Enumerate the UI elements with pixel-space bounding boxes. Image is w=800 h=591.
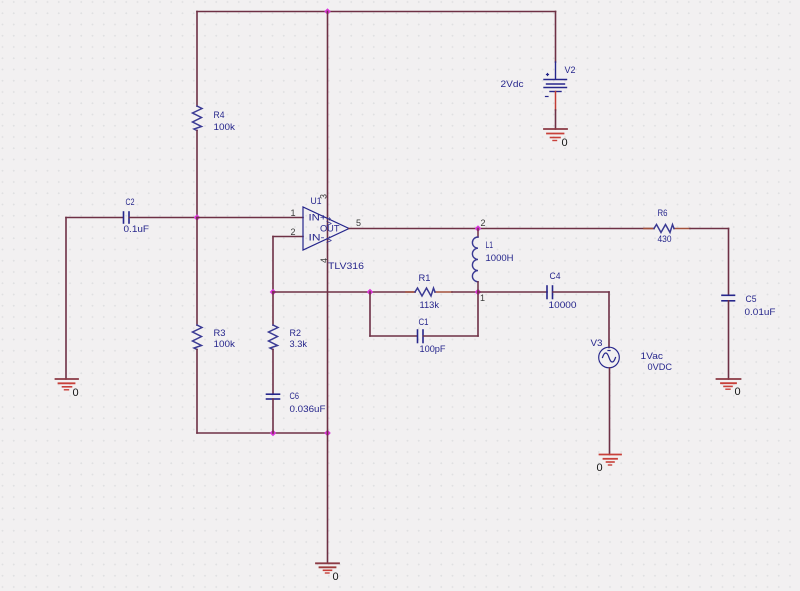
inductor L1 bottom lead [477, 282, 479, 292]
wire C2 left lead [66, 217, 123, 219]
svg-text:R4: R4 [214, 110, 225, 121]
junction C1 loop left [367, 289, 374, 296]
wire V3 to ground [609, 368, 611, 455]
capacitor C1 [418, 330, 424, 343]
svg-text:113k: 113k [420, 300, 440, 311]
wire output horizontal [349, 228, 654, 230]
resistor R6 lead tint right [674, 228, 690, 230]
svg-text:0: 0 [333, 571, 339, 583]
ground 0 bottom center [316, 563, 339, 573]
inductor L1 top lead [477, 229, 479, 238]
ground 0 at V3 [600, 455, 622, 466]
svg-text:TLV316: TLV316 [328, 261, 364, 272]
svg-text:2: 2 [291, 227, 296, 237]
wire op-amp pin1 input [197, 217, 303, 219]
battery V2 [544, 74, 567, 97]
capacitor C5 [722, 295, 735, 301]
wire corner down to C5 [728, 229, 730, 296]
op-amp U1 triangle [303, 207, 349, 250]
wire C1 left lead [370, 335, 417, 337]
junction at power line bottom [324, 430, 331, 437]
svg-text:R2: R2 [290, 328, 302, 339]
ground 0 left [56, 379, 79, 390]
resistor R1 lead tint right [435, 291, 452, 293]
svg-text:0: 0 [735, 386, 741, 398]
svg-text:C2: C2 [126, 197, 135, 208]
wire C2 right lead [130, 217, 198, 219]
resistor R6 [654, 225, 674, 233]
resistor R2 [269, 325, 279, 350]
capacitor C6 [267, 394, 280, 399]
ground 0 at V2 [544, 129, 567, 141]
svg-text:0.036uF: 0.036uF [290, 404, 326, 415]
wire R4 top lead [196, 12, 198, 107]
svg-text:L1: L1 [486, 240, 494, 251]
svg-text:0.01uF: 0.01uF [745, 307, 776, 318]
svg-text:C5: C5 [746, 294, 757, 305]
junction feedback left [270, 289, 277, 296]
svg-text:R1: R1 [419, 273, 431, 284]
junction at C6 bottom [270, 430, 277, 437]
wire V2 pin stub navy [555, 62, 557, 79]
svg-text:V3: V3 [591, 338, 603, 349]
wire R3 bottom lead [196, 350, 198, 434]
resistor R4 [193, 106, 203, 131]
op-amp U1 power line [327, 12, 329, 564]
svg-text:R3: R3 [214, 328, 226, 339]
svg-text:C4: C4 [550, 271, 561, 282]
wire R3 top lead [196, 218, 198, 326]
svg-text:0.1uF: 0.1uF [124, 224, 150, 235]
wire C4 to corner [553, 291, 609, 293]
svg-text:1: 1 [480, 293, 485, 303]
capacitor C2 [124, 212, 130, 223]
wire C5 to ground [728, 301, 730, 379]
junction node 1 [475, 289, 482, 296]
resistor R6 lead tint left [644, 228, 654, 230]
wire R2 to C6 [272, 350, 274, 395]
wire pin2 vertical [272, 237, 274, 293]
svg-text:5: 5 [356, 218, 361, 228]
source V3 circle [599, 347, 620, 368]
wire feedback horizontal [273, 291, 415, 293]
wire R2 top lead [272, 292, 274, 325]
wire op-amp pin2 input horizontal [273, 236, 303, 238]
svg-text:2Vdc: 2Vdc [501, 79, 524, 90]
svg-text:100k: 100k [214, 122, 236, 133]
wire left vertical to ground [65, 218, 67, 380]
svg-text:C1: C1 [419, 317, 429, 328]
svg-text:3: 3 [319, 194, 329, 199]
wire C1 right lead [424, 335, 479, 337]
wire V2 to ground [555, 110, 557, 129]
svg-text:1000H: 1000H [486, 253, 514, 264]
capacitor C4 [547, 286, 553, 299]
resistor R3 [193, 325, 203, 350]
junction at C2/R4 node [194, 214, 201, 221]
wire node1 to C4 [478, 291, 547, 293]
wire bottom horizontal [197, 432, 328, 434]
inductor L1 [472, 237, 478, 282]
wire C1 loop right vertical [477, 292, 479, 336]
svg-text:R6: R6 [658, 208, 668, 219]
wire corner down to V3 [608, 292, 610, 348]
ground 0 at C5 [717, 379, 741, 389]
wire V2 top lead [555, 12, 557, 63]
svg-text:3.3k: 3.3k [290, 339, 308, 350]
wire top horizontal [197, 11, 556, 13]
resistor R1 lead tint left [406, 291, 415, 293]
svg-text:100pF: 100pF [420, 344, 446, 355]
svg-text:0: 0 [562, 137, 568, 149]
svg-text:10000: 10000 [549, 300, 577, 311]
svg-text:430: 430 [658, 234, 672, 245]
wire R6 to corner [690, 228, 729, 230]
wire R4 bottom lead [196, 131, 198, 218]
junction node 2 [475, 225, 482, 232]
resistor R1 [415, 288, 435, 296]
wire R1 right lead [452, 291, 478, 293]
wire V2 bottom red segment [555, 92, 557, 111]
svg-text:V2: V2 [565, 65, 576, 76]
svg-text:V+: V+ [325, 216, 334, 226]
svg-text:1Vac: 1Vac [641, 351, 664, 362]
svg-text:2: 2 [481, 218, 486, 228]
svg-text:0: 0 [73, 387, 79, 399]
wire C6 bottom lead [272, 399, 274, 433]
svg-text:0VDC: 0VDC [648, 362, 673, 373]
wire C1 loop left vertical [369, 292, 371, 336]
svg-text:100k: 100k [214, 339, 236, 350]
svg-text:0: 0 [597, 462, 603, 474]
svg-text:C6: C6 [290, 391, 300, 402]
svg-text:1: 1 [291, 208, 296, 218]
source V3 sine [603, 353, 616, 362]
junction node on top wire [324, 8, 331, 15]
source V3 plus tick [608, 350, 610, 352]
svg-text:V-: V- [325, 235, 334, 243]
